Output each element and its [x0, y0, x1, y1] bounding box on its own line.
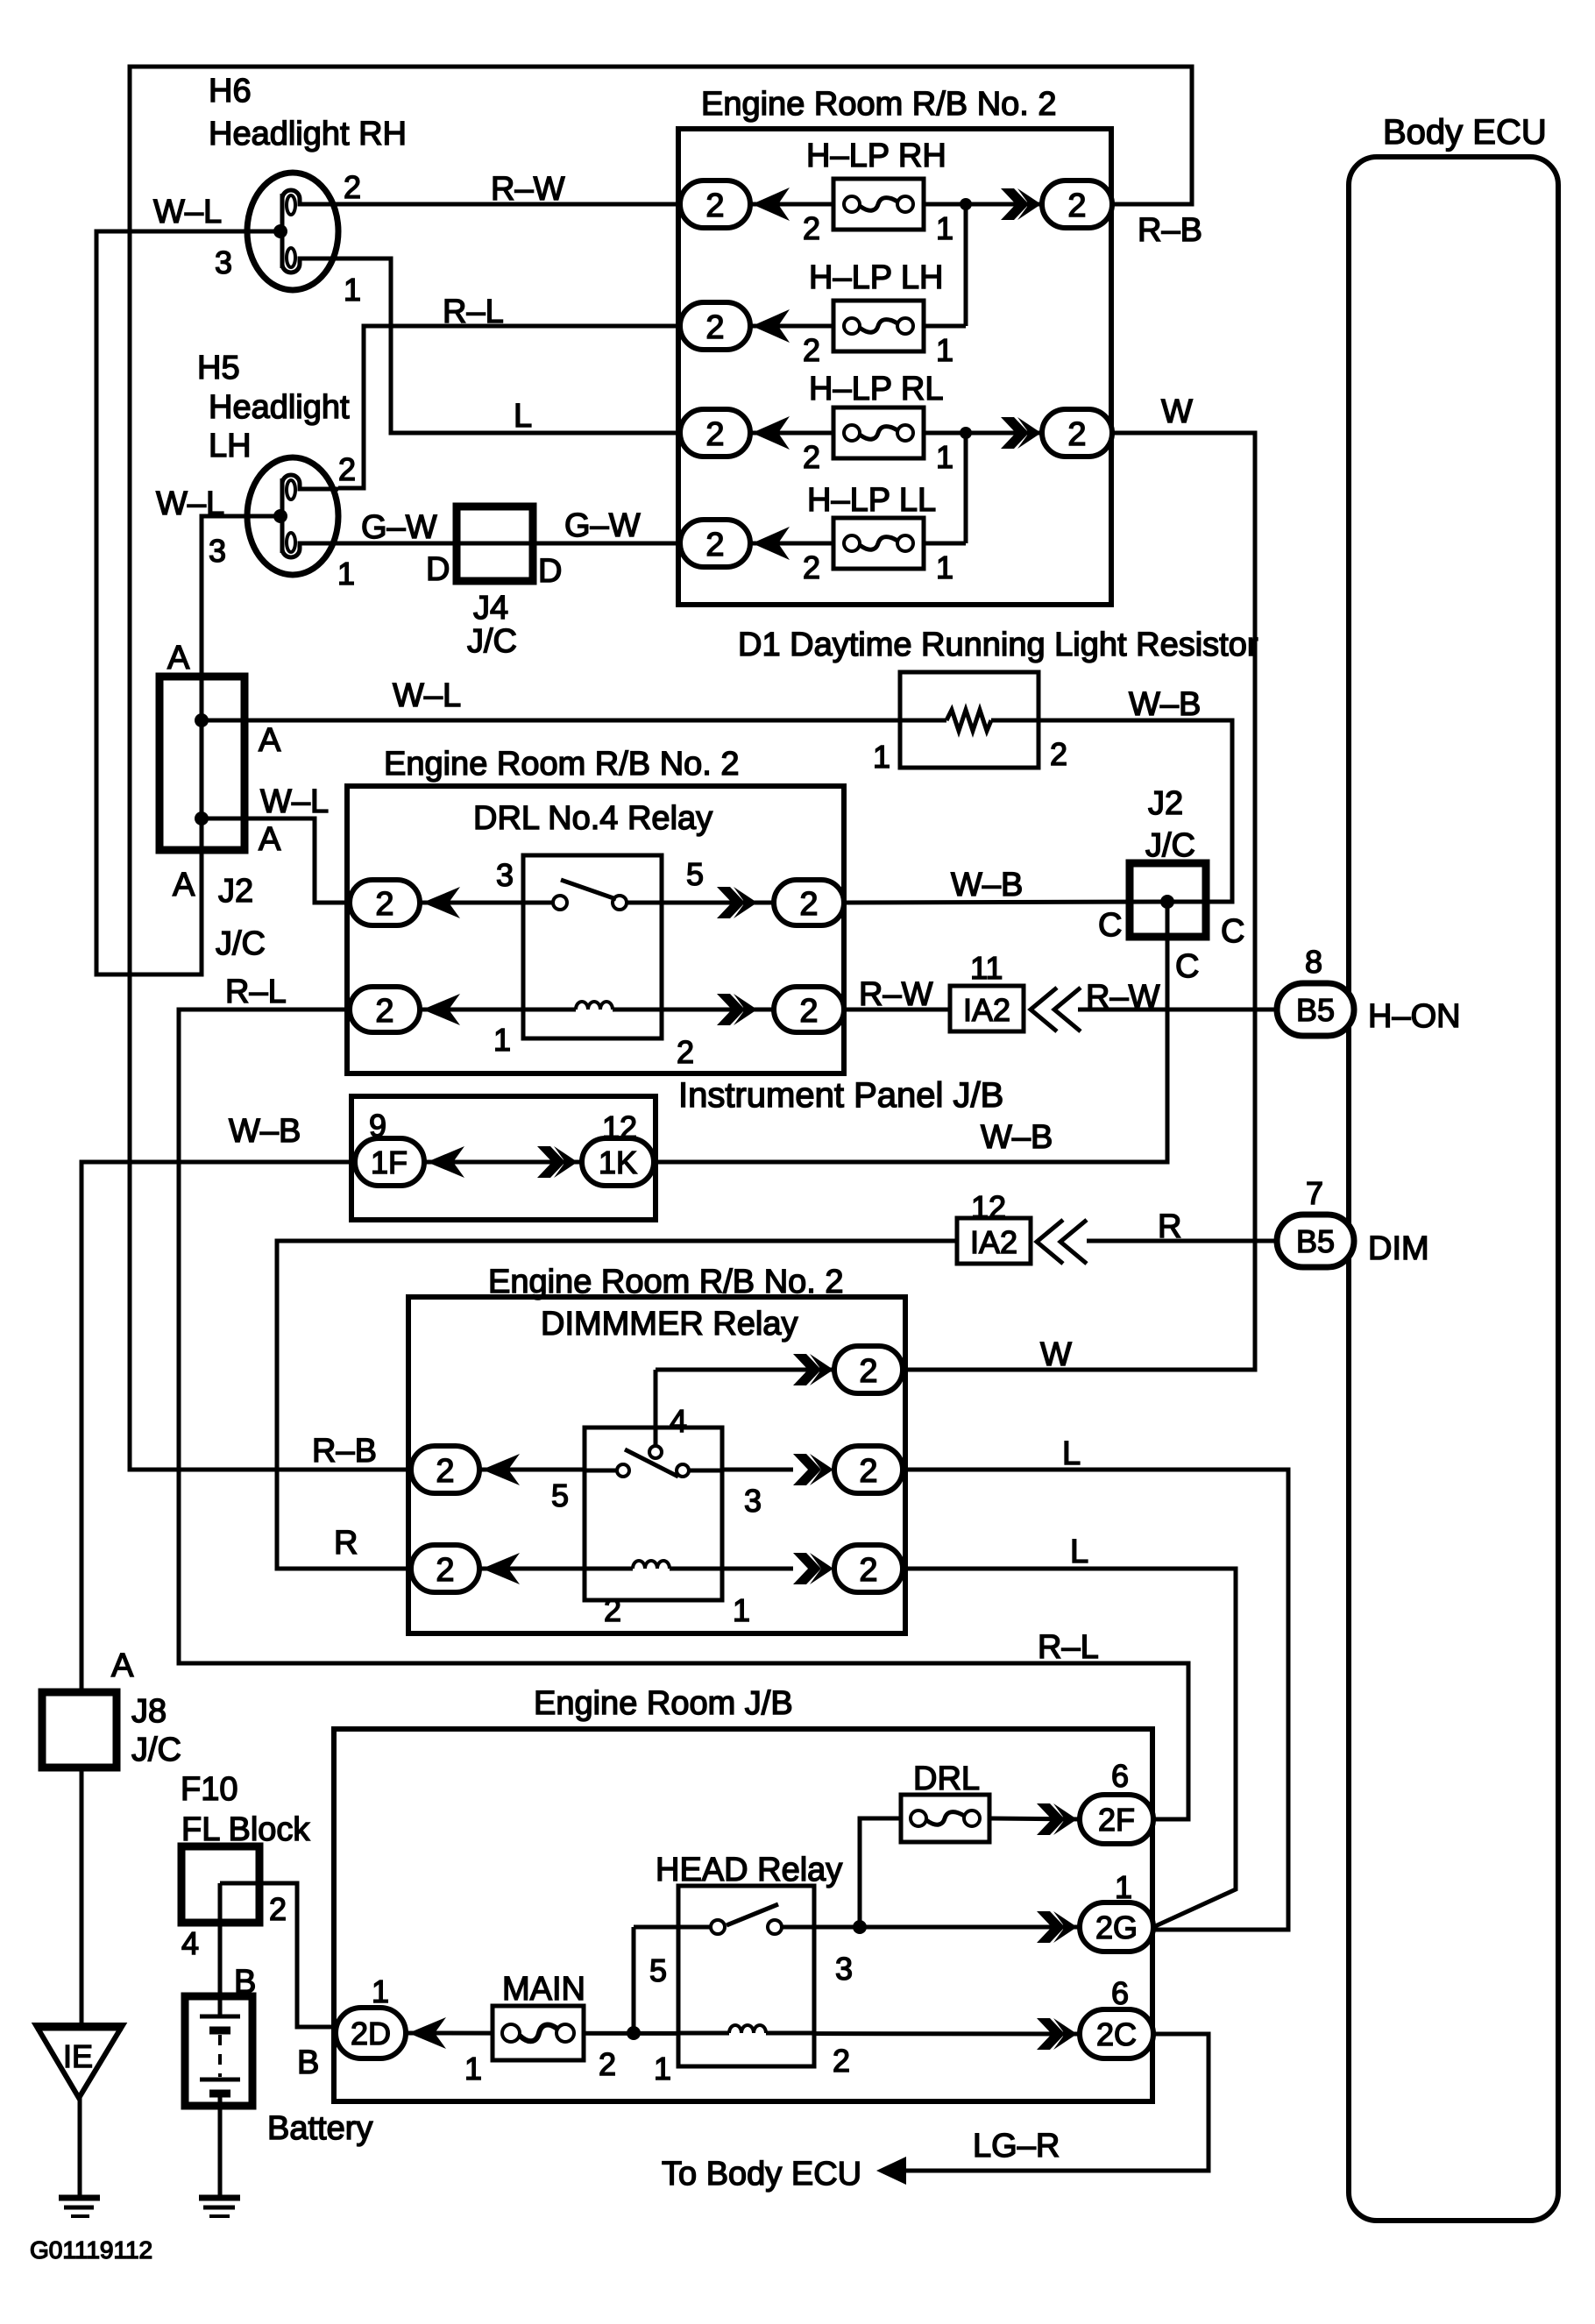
- svg-text:To Body ECU: To Body ECU: [662, 2156, 861, 2193]
- arrow male DIMMMER top output: [793, 1354, 821, 1385]
- svg-text:1: 1: [654, 2051, 671, 2087]
- arrow female H-LP LL input: [752, 527, 790, 560]
- DRL No.4 Relay outer box Engine Room R/B No.2: [347, 786, 844, 1073]
- svg-text:5: 5: [649, 1952, 667, 1988]
- svg-text:H–ON: H–ON: [1368, 998, 1461, 1035]
- wire R-W DRL relay row2 output to IA2 11 to B5 8: [843, 1008, 950, 1012]
- ground symbol battery: [199, 2198, 240, 2216]
- svg-text:W: W: [1161, 393, 1193, 430]
- svg-text:A: A: [173, 867, 195, 903]
- svg-text:Engine Room R/B No. 2: Engine Room R/B No. 2: [488, 1264, 844, 1300]
- svg-text:W–L: W–L: [156, 485, 224, 522]
- junction connector J4 box: [457, 507, 533, 581]
- svg-text:Engine Room R/B No. 2: Engine Room R/B No. 2: [384, 746, 740, 783]
- wire DIMMMER pin4 vertical: [654, 1370, 658, 1448]
- svg-text:2: 2: [705, 527, 724, 563]
- svg-text:4: 4: [670, 1403, 687, 1439]
- svg-text:B: B: [297, 2044, 319, 2081]
- svg-text:W–B: W–B: [229, 1113, 301, 1150]
- svg-text:IA2: IA2: [963, 992, 1010, 1028]
- svg-text:1: 1: [372, 1973, 389, 2009]
- wire DRL relay row2 coil: [419, 1008, 776, 1012]
- wire R-L from DRL relay row2 input down left column: [179, 1010, 1188, 1819]
- wire HEAD relay switch row: [634, 1925, 1081, 1930]
- Engine Room J/B box: [334, 1729, 1152, 2101]
- connector 2C oval engine room J/B: [1080, 2009, 1153, 2058]
- connector 2 oval H-LP LH input: [680, 302, 750, 350]
- wire H-LP LH row: [750, 324, 966, 329]
- connector 2 oval DIMMMER row1 input: [411, 1446, 479, 1493]
- fuse DRL in Engine Room J/B: [901, 1795, 989, 1842]
- wire L DIMMMER row2 output to 2G diagonal: [903, 1569, 1236, 1927]
- svg-text:Instrument Panel J/B: Instrument Panel J/B: [678, 1076, 1003, 1115]
- svg-text:W–L: W–L: [393, 677, 461, 714]
- svg-text:2: 2: [269, 1891, 287, 1927]
- svg-text:MAIN: MAIN: [502, 1971, 585, 2008]
- svg-text:2: 2: [859, 1552, 877, 1589]
- svg-text:2: 2: [436, 1453, 454, 1490]
- svg-text:A: A: [167, 640, 190, 677]
- wire H-LP RH row inside relay block: [750, 202, 1044, 207]
- HEAD relay inner box: [678, 1886, 814, 2066]
- wire H-LP LL row: [750, 542, 966, 546]
- junction connector J8 box: [42, 1692, 117, 1768]
- svg-text:H6: H6: [209, 73, 252, 110]
- wire R-W from chevron to B5 8: [1078, 1008, 1279, 1012]
- arrow female 2D: [408, 2017, 446, 2049]
- connector 2 oval H-LP RH output: [1042, 181, 1112, 228]
- svg-text:D1 Daytime Running Light Resis: D1 Daytime Running Light Resistor: [738, 627, 1258, 663]
- svg-text:D: D: [538, 553, 562, 590]
- connector 2 oval H-LP RH input: [680, 181, 750, 228]
- arrow female H-LP LH input: [752, 309, 790, 343]
- node H6 pin3 junction: [273, 224, 287, 238]
- svg-text:B: B: [234, 1964, 256, 2001]
- IA2 connector 12 chevrons: [1037, 1220, 1087, 1264]
- wire HEAD relay pin5 vertical: [632, 1927, 636, 2033]
- svg-text:3: 3: [496, 857, 514, 893]
- A connector box: [159, 677, 245, 850]
- svg-text:L: L: [1062, 1435, 1081, 1472]
- svg-text:Body ECU: Body ECU: [1383, 113, 1547, 152]
- headlight H5 bulb: [247, 457, 338, 575]
- D1 daytime running light resistor box: [900, 672, 1039, 768]
- svg-text:Headlight RH: Headlight RH: [209, 116, 407, 152]
- battery internal plates: [200, 1996, 240, 2094]
- DRL relay switch contacts: [523, 880, 662, 910]
- svg-text:W–B: W–B: [981, 1119, 1053, 1156]
- svg-text:G–W: G–W: [361, 509, 437, 546]
- svg-text:J/C: J/C: [1145, 827, 1195, 864]
- connector 1F oval instrument panel: [355, 1138, 424, 1186]
- svg-text:8: 8: [1305, 944, 1322, 980]
- svg-text:2: 2: [705, 188, 724, 224]
- svg-text:DRL No.4 Relay: DRL No.4 Relay: [473, 800, 712, 837]
- svg-text:2: 2: [705, 416, 724, 453]
- svg-text:G01119112: G01119112: [30, 2236, 152, 2264]
- svg-text:2: 2: [803, 549, 820, 585]
- arrow male 1K: [537, 1146, 565, 1178]
- wire battery B row to MAIN fuse and HEAD relay coil to 2C: [406, 2033, 1081, 2034]
- arrow male DIMMMER row1 output: [793, 1454, 821, 1485]
- wire link H-LP RL output to H-LP LL fuse: [964, 433, 968, 543]
- arrow male DIMMMER row2 output: [793, 1553, 821, 1584]
- svg-text:2: 2: [859, 1453, 877, 1490]
- Engine Room R/B No.2 box (headlight fuses): [678, 129, 1111, 605]
- svg-text:L: L: [1070, 1534, 1088, 1570]
- svg-text:2: 2: [436, 1552, 454, 1589]
- svg-text:G–W: G–W: [564, 507, 641, 544]
- svg-text:2: 2: [344, 169, 361, 205]
- wire W from H-LP RL output down to DIMMMER relay output: [903, 433, 1255, 1370]
- svg-text:Battery: Battery: [267, 2110, 372, 2147]
- svg-text:6: 6: [1111, 1975, 1129, 2011]
- svg-text:6: 6: [1111, 1758, 1129, 1794]
- svg-text:A: A: [259, 821, 281, 858]
- wire W-B from 1F to left ground column: [82, 1162, 355, 1692]
- svg-text:2F: 2F: [1098, 1802, 1135, 1838]
- node A connector junction upper: [195, 713, 209, 727]
- svg-text:B5: B5: [1296, 992, 1335, 1028]
- svg-text:R–L: R–L: [225, 974, 287, 1010]
- svg-text:LH: LH: [209, 428, 252, 464]
- svg-text:R–L: R–L: [1038, 1629, 1099, 1666]
- arrow female 1F: [427, 1146, 464, 1178]
- svg-text:1: 1: [1115, 1869, 1132, 1905]
- DRL relay coil: [523, 1002, 662, 1010]
- connector 2 oval DIMMMER row1 output: [834, 1446, 903, 1493]
- wire DRL fuse feed vertical: [860, 1818, 901, 1927]
- svg-text:2C: 2C: [1096, 2016, 1137, 2052]
- svg-text:1: 1: [936, 210, 953, 246]
- svg-text:J8: J8: [131, 1693, 167, 1730]
- connector 2 oval H-LP LL input: [680, 520, 750, 567]
- arrow male DRL relay row2 output: [717, 994, 745, 1025]
- svg-text:2: 2: [799, 993, 818, 1030]
- wire DIMMMER row1 switch row: [478, 1468, 793, 1472]
- connector 1K oval instrument panel: [582, 1138, 654, 1186]
- svg-text:LG–R: LG–R: [973, 2128, 1060, 2165]
- svg-text:Headlight: Headlight: [209, 389, 350, 426]
- svg-text:3: 3: [215, 244, 232, 280]
- svg-text:2: 2: [859, 1353, 877, 1390]
- svg-text:J2: J2: [1148, 785, 1183, 822]
- svg-text:F10: F10: [181, 1771, 237, 1808]
- connector 2D oval engine room J/B: [336, 2008, 406, 2058]
- node H-LP RH output junction: [960, 198, 972, 210]
- arrow female H-LP RH input: [752, 188, 790, 221]
- IA2 connector 11 box: [950, 986, 1024, 1031]
- svg-text:R–B: R–B: [312, 1433, 377, 1470]
- svg-text:C: C: [1221, 913, 1244, 950]
- svg-text:1: 1: [936, 549, 953, 585]
- svg-text:R–B: R–B: [1138, 212, 1202, 249]
- HEAD relay switch contacts: [678, 1904, 814, 1934]
- wire FL block pin4 to battery: [218, 1883, 223, 2016]
- svg-text:DRL: DRL: [913, 1761, 980, 1797]
- svg-text:H5: H5: [197, 350, 240, 386]
- svg-text:1K: 1K: [599, 1144, 637, 1180]
- fuse H-LP RL: [833, 407, 924, 458]
- wire R-W from H6 pin2 to Engine Room R/B No.2: [338, 202, 680, 207]
- DRL No.4 relay inner box: [523, 855, 662, 1038]
- svg-text:2: 2: [599, 2046, 616, 2082]
- wire R from chevron to B5 7: [1087, 1239, 1279, 1243]
- svg-text:2: 2: [705, 309, 724, 346]
- svg-text:1: 1: [733, 1592, 750, 1628]
- svg-text:W–L: W–L: [153, 194, 222, 230]
- svg-text:A: A: [259, 722, 281, 759]
- svg-text:1: 1: [936, 439, 953, 475]
- wire ground column J8 to IE triangle: [80, 1768, 84, 2025]
- svg-text:2: 2: [799, 886, 818, 923]
- wire DRL fuse to 2F: [989, 1818, 1081, 1819]
- svg-text:J/C: J/C: [467, 623, 517, 660]
- fuse H-LP RH: [833, 179, 924, 230]
- wire W-L from A junction to DRL No.4 relay input: [202, 818, 351, 903]
- svg-text:2: 2: [803, 332, 820, 368]
- svg-text:J/C: J/C: [131, 1732, 181, 1768]
- svg-text:2: 2: [803, 439, 820, 475]
- wire FL block pin2 to 2D: [220, 1883, 337, 2027]
- connector 2 oval H-LP RL input: [680, 409, 750, 457]
- connector 2 oval DRL relay row2 input: [350, 987, 420, 1032]
- Instrument Panel J/B box: [351, 1096, 656, 1220]
- svg-text:W–B: W–B: [951, 867, 1023, 903]
- headlight H6 bulb: [247, 173, 338, 290]
- arrow female DRL relay row2 input: [422, 994, 460, 1025]
- wire DIMMMER top output pin4: [656, 1368, 834, 1372]
- fuse H-LP LL: [833, 518, 924, 569]
- svg-text:4: 4: [181, 1925, 199, 1961]
- arrow female DIMMMER row1 input: [482, 1454, 520, 1485]
- wire DIMMMER row2 coil row: [478, 1567, 793, 1571]
- fuse H-LP LH: [833, 301, 924, 351]
- DIMMMER Relay outer box Engine Room R/B No.2: [408, 1297, 905, 1633]
- svg-text:C: C: [1175, 948, 1199, 985]
- svg-text:R–W: R–W: [1086, 979, 1160, 1016]
- svg-text:3: 3: [744, 1483, 762, 1519]
- node HEAD relay pin3 junction: [853, 1920, 867, 1934]
- node MAIN fuse output junction: [627, 2026, 641, 2040]
- svg-text:1: 1: [873, 739, 890, 775]
- svg-text:1: 1: [936, 332, 953, 368]
- wire R-L from H-LP LH input to H5 pin2: [338, 326, 680, 488]
- svg-text:W–L: W–L: [260, 783, 329, 820]
- svg-text:R: R: [334, 1525, 358, 1562]
- connector 2 oval DIMMMER row2 input: [411, 1545, 479, 1592]
- svg-text:HEAD Relay: HEAD Relay: [656, 1852, 842, 1888]
- DIMMMER relay inner box: [585, 1428, 722, 1600]
- connector 2G oval engine room J/B: [1080, 1902, 1153, 1952]
- svg-text:J4: J4: [473, 590, 508, 627]
- svg-text:A: A: [111, 1647, 134, 1684]
- wire L from H6 pin1 to H-LP RL input: [338, 259, 680, 433]
- svg-text:R: R: [1158, 1208, 1181, 1245]
- svg-text:1: 1: [464, 2051, 482, 2087]
- FL block F10 box: [181, 1846, 259, 1923]
- svg-text:12: 12: [602, 1109, 637, 1145]
- svg-text:R–W: R–W: [491, 171, 565, 208]
- IA2 connector 12 box: [957, 1218, 1031, 1264]
- arrow male 2F: [1037, 1803, 1065, 1835]
- arrow male 2G: [1037, 1911, 1065, 1943]
- DIMMMER relay switch contacts: [585, 1428, 722, 1477]
- svg-text:W: W: [1040, 1336, 1072, 1373]
- svg-text:W–B: W–B: [1129, 686, 1201, 723]
- arrow female DIMMMER row2 input: [482, 1553, 520, 1584]
- junction connector J2 (right) box: [1130, 863, 1206, 937]
- svg-text:1: 1: [493, 1022, 511, 1058]
- wire LG-R from 2C to To Body ECU arrow: [901, 2034, 1209, 2171]
- svg-text:Engine Room J/B: Engine Room J/B: [534, 1685, 793, 1722]
- resistor zigzag D1: [900, 710, 1039, 731]
- svg-text:11: 11: [970, 950, 1003, 986]
- wire W-B DRL relay row1 output to J2 J/C: [843, 902, 1167, 903]
- node H-LP RL output junction: [960, 427, 972, 439]
- node A connector junction lower: [195, 811, 209, 825]
- node J2 J/C junction: [1160, 895, 1174, 909]
- svg-text:2D: 2D: [351, 2016, 391, 2051]
- wire L DIMMMER row1 output to 2G: [903, 1470, 1288, 1930]
- IA2 connector 11 chevrons: [1031, 988, 1081, 1031]
- connector 2 oval DIMMMER row2 output: [834, 1545, 903, 1592]
- svg-text:1: 1: [344, 272, 361, 308]
- arrow To Body ECU: [876, 2157, 906, 2185]
- arrow male H-LP RH output: [1001, 188, 1029, 220]
- ground symbol left (IE): [59, 2198, 100, 2216]
- wire W-L from A junction to D1 resistor pin1: [202, 719, 931, 723]
- svg-text:2: 2: [1067, 416, 1086, 453]
- svg-text:2: 2: [375, 993, 393, 1030]
- svg-text:2: 2: [1067, 188, 1086, 224]
- wire instrument panel 1F-1K row: [424, 1160, 582, 1165]
- svg-text:Engine Room R/B No. 2: Engine Room R/B No. 2: [701, 86, 1057, 123]
- arrow female H-LP RL input: [752, 416, 790, 450]
- svg-text:2: 2: [677, 1034, 694, 1070]
- DIMMMER relay coil: [585, 1561, 722, 1569]
- arrow male H-LP RL output: [1001, 417, 1029, 449]
- svg-text:3: 3: [209, 533, 226, 569]
- svg-text:R–W: R–W: [859, 976, 933, 1013]
- svg-text:2: 2: [604, 1592, 621, 1628]
- svg-text:2: 2: [833, 2043, 850, 2079]
- node H5 pin3 junction: [273, 509, 287, 523]
- wire W-B from J2 J/C down to 1K: [654, 902, 1167, 1162]
- svg-text:DIM: DIM: [1368, 1230, 1429, 1267]
- svg-text:H–LP RH: H–LP RH: [806, 138, 946, 174]
- wire R-B top frame from H-LP RH output to left column: [130, 67, 1192, 1470]
- svg-text:2: 2: [1050, 736, 1067, 772]
- svg-text:7: 7: [1306, 1175, 1323, 1211]
- svg-text:IE: IE: [63, 2038, 93, 2074]
- HEAD relay coil: [678, 2025, 814, 2033]
- svg-text:R–L: R–L: [443, 294, 504, 330]
- wire G-W from H5 pin1 through J4 to H-LP LL input: [338, 542, 680, 546]
- svg-text:L: L: [514, 398, 532, 435]
- connector 2 oval DRL relay row1 output: [774, 880, 844, 925]
- ground IE triangle: [36, 2025, 123, 2098]
- svg-text:J/C: J/C: [216, 925, 266, 962]
- svg-text:C: C: [1098, 907, 1122, 944]
- wire DRL relay row1 switch: [419, 901, 776, 905]
- connector 2 oval DRL relay row2 output: [774, 987, 844, 1032]
- connector 2 oval H-LP RL output: [1042, 409, 1112, 457]
- connector B5 pin8 oval: [1277, 983, 1354, 1036]
- svg-text:IA2: IA2: [970, 1224, 1017, 1260]
- svg-text:12: 12: [971, 1189, 1006, 1225]
- svg-text:DIMMMER Relay: DIMMMER Relay: [541, 1306, 797, 1343]
- svg-text:H–LP LH: H–LP LH: [809, 259, 944, 296]
- fuse MAIN fusible link: [493, 2006, 584, 2060]
- svg-text:FL Block: FL Block: [181, 1811, 310, 1848]
- wire W-L net H6 pin3 to A junction connector: [96, 231, 280, 974]
- svg-text:2G: 2G: [1095, 1910, 1138, 1945]
- wire R from IA2 12 to DIMMMER relay row2 input: [277, 1241, 957, 1569]
- connector B5 pin7 oval: [1277, 1215, 1354, 1267]
- wire link H-LP RH output to H-LP LH fuse: [964, 204, 968, 326]
- arrow male DRL relay row1 output: [717, 887, 745, 918]
- svg-text:2: 2: [375, 886, 393, 923]
- Body ECU box: [1349, 157, 1558, 2221]
- svg-text:9: 9: [369, 1108, 386, 1144]
- wire battery negative to ground: [218, 2096, 223, 2196]
- svg-text:B5: B5: [1296, 1223, 1335, 1259]
- battery box: [185, 1996, 252, 2106]
- wire W-B from D1 resistor pin2 to J2 J/C: [1008, 720, 1232, 902]
- connector 2 oval DIMMMER top output: [834, 1346, 903, 1393]
- svg-text:1F: 1F: [371, 1144, 408, 1180]
- svg-text:5: 5: [551, 1477, 569, 1513]
- connector 2 oval DRL relay row1 input: [350, 880, 420, 925]
- connector 2F oval engine room J/B: [1080, 1795, 1153, 1844]
- wire IE triangle to ground: [78, 2098, 82, 2196]
- svg-text:H–LP RL: H–LP RL: [809, 371, 944, 407]
- svg-text:D: D: [426, 551, 450, 588]
- arrow male 2C: [1037, 2018, 1065, 2050]
- svg-text:3: 3: [835, 1951, 853, 1987]
- svg-text:H–LP LL: H–LP LL: [807, 482, 936, 519]
- svg-text:J2: J2: [218, 873, 253, 910]
- wire H-LP RL row: [750, 431, 1044, 436]
- svg-text:2: 2: [338, 451, 356, 487]
- arrow female DRL relay row1 input: [422, 887, 460, 918]
- svg-text:1: 1: [337, 556, 355, 592]
- svg-text:2: 2: [803, 210, 820, 246]
- svg-text:5: 5: [686, 856, 704, 892]
